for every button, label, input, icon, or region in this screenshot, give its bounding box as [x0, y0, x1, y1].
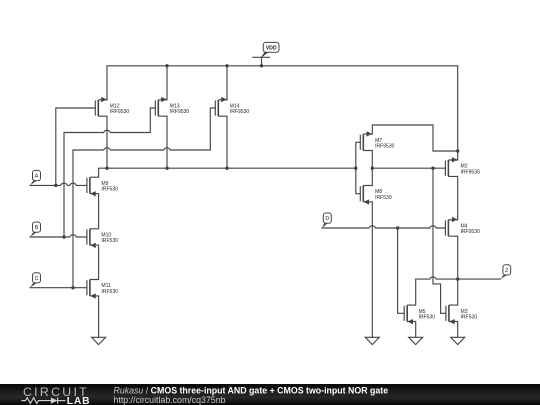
wire M13 source to rail: [166, 66, 168, 100]
net flag D: [322, 213, 331, 228]
wire inverter output to M2 gate: [372, 167, 445, 169]
wire M10 source to M11 drain: [98, 245, 100, 279]
junction M7 source with M2 source: [456, 149, 459, 152]
ground M5: [409, 337, 423, 344]
junction M13 drain on NAND output node: [165, 167, 168, 170]
transistor M2 IRF9530: [445, 157, 457, 176]
wire input B: [30, 235, 87, 237]
svg-text:IRF530: IRF530: [101, 187, 118, 193]
net flag B: [30, 222, 41, 237]
wire VDD rail: [107, 66, 458, 151]
svg-text:IRF9530: IRF9530: [461, 169, 481, 175]
junction M12 drain on NAND output node: [105, 167, 108, 170]
junction M4 drain with M3 drain on node Z: [456, 277, 459, 280]
transistor M14 IRF9530: [215, 97, 227, 116]
svg-text:A: A: [35, 174, 39, 180]
transistor M5 IRF530: [404, 305, 416, 324]
wire B to M13 gate: [64, 108, 155, 237]
footer bar: [0, 384, 540, 405]
ground M3: [451, 337, 465, 344]
wire A to M12 gate: [56, 108, 96, 185]
wire M11 source to ground: [98, 296, 100, 337]
wire M7 source to rail branch: [372, 125, 457, 151]
junction node C to M14 gate riser: [71, 286, 74, 289]
junction M14 drain on NAND output node: [225, 167, 228, 170]
svg-text:C: C: [35, 276, 39, 282]
junction VDD flag on rail: [260, 64, 263, 67]
svg-text:IRF9530: IRF9530: [375, 144, 395, 150]
wire M2 source: [457, 151, 459, 160]
wire input D: [322, 226, 445, 228]
logo resistor zigzag and diode: [22, 397, 66, 403]
wire M14 source to rail: [226, 66, 228, 100]
junction inverter output node: [371, 167, 374, 170]
transistor M13 IRF9530: [155, 97, 167, 116]
svg-text:LAB: LAB: [67, 396, 91, 405]
transistor M10 IRF530: [87, 229, 99, 248]
transistor M4 IRF9530: [445, 217, 457, 236]
svg-text:B: B: [35, 225, 39, 231]
junction M14 source on VDD rail: [225, 64, 228, 67]
transistor M8 IRF530: [360, 186, 372, 205]
transistor M3 IRF530: [446, 305, 458, 324]
svg-text:IRF9530: IRF9530: [170, 109, 190, 115]
net flag VDD: [252, 42, 279, 58]
ground M11: [92, 337, 106, 344]
wire D to M5 gate: [398, 228, 405, 313]
wire M3 source to ground: [457, 322, 459, 338]
svg-text:IRF530: IRF530: [101, 238, 118, 244]
wire inverter output to M3 gate: [433, 168, 446, 313]
wire M8 source to ground: [371, 202, 373, 337]
wire input C: [30, 287, 87, 289]
transistor M12 IRF9530: [95, 97, 107, 116]
wire M7 drain to M8 drain: [371, 151, 373, 186]
wire inverter gate line: [356, 142, 361, 193]
net flag C: [30, 273, 41, 288]
transistor M7 IRF9530: [360, 131, 372, 150]
net flag A: [30, 170, 41, 185]
svg-text:D: D: [325, 216, 329, 222]
wire M4 drain to M3 drain: [457, 236, 459, 305]
wire NAND output bus: [99, 168, 356, 177]
junction node B to M13 gate riser: [62, 235, 65, 238]
junction node D to M5 gate riser: [396, 226, 399, 229]
wire M2 drain to M4 source: [457, 176, 459, 219]
wire M14 drain to NAND bus: [226, 116, 228, 168]
svg-text:IRF530: IRF530: [375, 195, 392, 201]
transistor M9 IRF530: [87, 177, 99, 196]
svg-text:IRF530: IRF530: [101, 289, 118, 295]
junction node A to M12 gate riser: [54, 184, 57, 187]
junction NAND output to inverter gates: [354, 167, 357, 170]
wire C to M14 gate: [73, 108, 215, 288]
transistor M11 IRF530: [87, 280, 99, 299]
svg-text:http://circuitlab.com/cq375nb: http://circuitlab.com/cq375nb: [114, 395, 226, 405]
svg-text:IRF530: IRF530: [419, 315, 436, 321]
junction M13 source on VDD rail: [165, 64, 168, 67]
wire M5 drain to output Z: [416, 277, 501, 305]
svg-text:IRF530: IRF530: [461, 315, 478, 321]
junction inverter output branch to M3 gate: [431, 167, 434, 170]
wire M9 source to M10 drain: [98, 194, 100, 229]
ground M8: [365, 337, 379, 344]
wire input A: [30, 183, 87, 185]
wire M12 drain to NAND bus: [106, 116, 108, 168]
wire M13 drain to NAND bus: [166, 116, 168, 168]
svg-text:IRF9530: IRF9530: [230, 109, 250, 115]
wire VDD stub: [261, 57, 263, 66]
wire M5 source to ground: [415, 322, 417, 338]
svg-text:IRF9530: IRF9530: [461, 229, 481, 235]
net flag Z: [500, 265, 510, 279]
svg-text:VDD: VDD: [266, 46, 277, 52]
svg-text:IRF9530: IRF9530: [110, 109, 130, 115]
